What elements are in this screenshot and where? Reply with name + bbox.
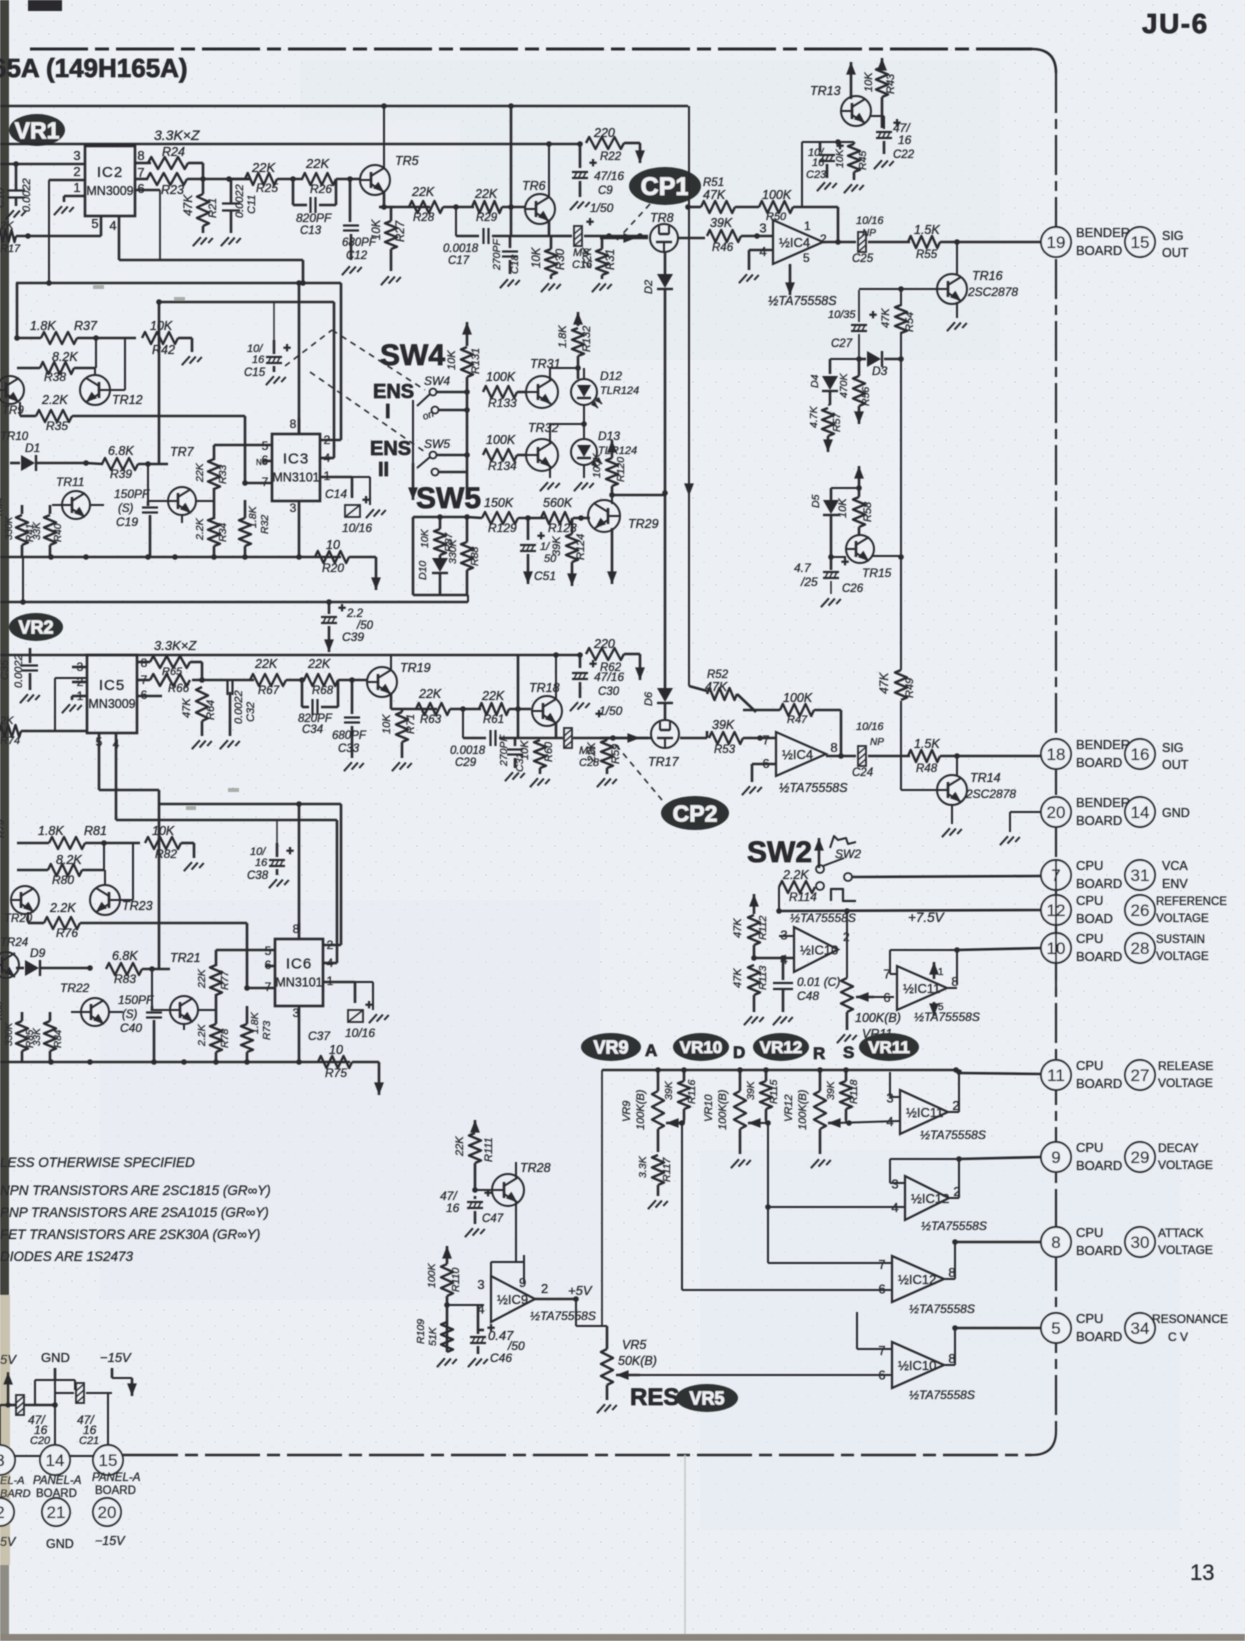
svg-text:½IC12: ½IC12: [898, 1272, 936, 1287]
wire TR22: [71, 1011, 81, 1013]
svg-text:TLR124: TLR124: [598, 445, 637, 457]
svg-text:18: 18: [1047, 745, 1066, 764]
svg-text:D1: D1: [25, 441, 40, 455]
svg-text:R86: R86: [0, 1001, 5, 1020]
svg-text:FET TRANSISTORS ARE 2SK30A (GR: FET TRANSISTORS ARE 2SK30A (GR∞Y): [0, 1227, 260, 1242]
wire rail y1062: [0, 1061, 350, 1064]
bottom scan edge strip: [0, 1634, 1245, 1641]
svg-text:VR5: VR5: [622, 1338, 646, 1352]
svg-text:16: 16: [446, 1201, 460, 1215]
svg-text:7: 7: [878, 1343, 885, 1358]
svg-text:19: 19: [1047, 233, 1066, 252]
IC11a loop wire: [890, 973, 897, 975]
svg-text:BENDER: BENDER: [1076, 225, 1130, 240]
svg-text:VR2: VR2: [18, 617, 53, 637]
wire TR21 base: [151, 969, 153, 1010]
svg-text:VR9: VR9: [593, 1037, 628, 1057]
wire R129-R123: [518, 517, 545, 520]
svg-text:28: 28: [1131, 939, 1150, 958]
resistor R37 1.8K: [41, 332, 77, 344]
svg-text:22K: 22K: [411, 185, 435, 199]
svg-text:TR13: TR13: [810, 84, 841, 98]
svg-text:39K: 39K: [745, 1080, 757, 1100]
resistor R35 2.2K: [36, 410, 72, 422]
wire TR8 row: [600, 237, 648, 240]
svg-text:C27: C27: [831, 338, 853, 350]
TR16 collector: [956, 242, 958, 274]
svg-text:R29: R29: [476, 212, 498, 224]
resistor R116 39K: [678, 1081, 690, 1109]
svg-text:½IC12: ½IC12: [911, 1191, 949, 1206]
svg-text:150PF: 150PF: [114, 487, 150, 501]
svg-text:MN3009: MN3009: [86, 184, 133, 198]
svg-text:PANEL-A: PANEL-A: [92, 1472, 141, 1484]
capacitor C21: [76, 1383, 84, 1403]
svg-text:R37: R37: [74, 319, 98, 333]
wire C24-R48: [868, 755, 910, 758]
wire R63-R61: [450, 708, 481, 711]
svg-text:R67: R67: [258, 685, 280, 697]
R42 to ground: [178, 337, 192, 340]
wire R24 to node: [188, 162, 203, 165]
TR28 emitter down: [515, 1202, 517, 1262]
svg-text:6: 6: [137, 181, 144, 196]
IC10b in wires: [857, 1348, 892, 1350]
svg-text:(S): (S): [118, 503, 134, 515]
vertical x602: [601, 1070, 603, 1326]
svg-text:VOLTAGE: VOLTAGE: [1158, 1243, 1213, 1257]
svg-text:R47: R47: [787, 714, 808, 726]
wire rail y302: [159, 301, 334, 304]
resistor R45 10K: [848, 144, 860, 172]
ground C9: [570, 201, 590, 210]
IC11b in3 wire: [890, 1096, 900, 1098]
capacitor C27: [858, 290, 860, 322]
resistor R46 39K: [707, 230, 741, 242]
pin circle 14b: [1125, 797, 1155, 827]
svg-text:820PF: 820PF: [296, 211, 332, 225]
print smudge 3: [228, 788, 239, 792]
pulse glyph: [831, 889, 856, 901]
svg-text:CPU: CPU: [1076, 1058, 1103, 1073]
ground TR32: [549, 467, 551, 478]
resistor R66: [150, 674, 190, 686]
ground C23: [817, 182, 837, 191]
svg-text:47K: 47K: [880, 308, 892, 328]
pin circle 20: [1041, 797, 1071, 827]
TR5 collector wire: [383, 106, 385, 168]
ground R59: [597, 778, 617, 787]
TR6 emitter: [548, 221, 551, 236]
svg-text:47K: 47K: [877, 672, 891, 694]
svg-text:TR11: TR11: [56, 475, 84, 489]
svg-text:R44: R44: [0, 497, 5, 516]
ground R27: [381, 276, 401, 285]
svg-text:+5V: +5V: [568, 1283, 593, 1298]
svg-text:0.0022: 0.0022: [234, 184, 246, 218]
capacitor C46: [470, 1336, 486, 1338]
svg-text:C34: C34: [302, 724, 323, 736]
resistor R115 39K: [760, 1081, 772, 1109]
svg-text:VR10: VR10: [703, 1094, 715, 1122]
dashed line C15-SW5: [310, 372, 425, 452]
svg-text:16: 16: [1131, 745, 1150, 764]
ground R30: [541, 283, 561, 292]
LED D13: [571, 439, 597, 465]
svg-text:TR8: TR8: [650, 211, 674, 225]
svg-text:SIG: SIG: [1162, 229, 1184, 243]
svg-text:100K: 100K: [783, 691, 813, 705]
svg-text:15: 15: [99, 1451, 118, 1470]
capacitor C16 MS: [574, 226, 582, 246]
svg-text:R17: R17: [0, 243, 21, 255]
wire TR31 col: [549, 368, 551, 380]
pin circle 27: [1125, 1060, 1155, 1090]
pin circle 10: [1041, 933, 1071, 963]
wire SW5: [436, 454, 467, 457]
svg-text:R25: R25: [256, 181, 278, 195]
svg-text:4.7: 4.7: [794, 561, 812, 575]
svg-text:C47: C47: [482, 1213, 504, 1225]
svg-text:20: 20: [1047, 803, 1066, 822]
svg-text:R133: R133: [488, 396, 517, 410]
vertical x17: [16, 283, 19, 338]
op-amp IC11b: [900, 1090, 948, 1134]
svg-text:R55: R55: [916, 249, 938, 261]
svg-text:C37: C37: [308, 1029, 331, 1043]
svg-text:ENS: ENS: [373, 381, 414, 403]
IC2 pin1 ground: [54, 206, 74, 215]
capacitor C20: [16, 1395, 24, 1415]
wire R110 node: [447, 1304, 484, 1306]
wire R83-TR21: [142, 968, 170, 971]
svg-text:R63: R63: [420, 714, 442, 726]
svg-text:SW4: SW4: [380, 339, 445, 372]
capacitor C33 680PF: [351, 680, 354, 714]
ground C38: [269, 879, 289, 888]
op-amp IC9: [491, 1276, 535, 1322]
badge VR5: [676, 1384, 738, 1412]
svg-text:47K: 47K: [703, 188, 726, 202]
capacitor C47: [467, 1201, 483, 1203]
svg-text:BOARD: BOARD: [1076, 1243, 1122, 1258]
resistor R17 stub: [0, 230, 16, 242]
svg-text:9: 9: [1051, 1148, 1060, 1167]
svg-text:VOLTAGE: VOLTAGE: [1156, 913, 1209, 925]
ground VR10: [731, 1159, 751, 1168]
pin circle 15b: [1125, 227, 1155, 257]
svg-text:47/16: 47/16: [594, 169, 624, 183]
svg-text:½TA75558S: ½TA75558S: [921, 1219, 987, 1233]
ground C10: [6, 210, 26, 219]
resistor R134 100K: [483, 449, 517, 461]
svg-text:R24: R24: [162, 145, 185, 159]
svg-text:R28: R28: [413, 212, 435, 224]
TR29 emitter down: [611, 528, 614, 584]
svg-text:R40: R40: [53, 523, 64, 542]
svg-text:8: 8: [137, 148, 144, 163]
pin circle 31: [1125, 860, 1155, 890]
svg-text:100K(B): 100K(B): [797, 1089, 809, 1130]
svg-text:R42: R42: [152, 343, 175, 357]
resistor R62 220: [586, 648, 624, 660]
svg-text:8.2K: 8.2K: [56, 853, 82, 867]
svg-text:0.0022: 0.0022: [21, 178, 33, 212]
svg-text:C13: C13: [300, 225, 322, 237]
IC12b out wire: [944, 1278, 955, 1280]
svg-text:1/50: 1/50: [590, 201, 614, 215]
capacitor C40 150PF: [151, 1006, 154, 1011]
badge VR2: [9, 613, 63, 641]
svg-text:CP2: CP2: [673, 800, 718, 826]
resistor R41 330K: [16, 515, 28, 545]
svg-text:C21: C21: [79, 1435, 99, 1447]
transistor TR7: [168, 487, 196, 515]
svg-text:470K: 470K: [838, 372, 850, 398]
svg-text:47/16: 47/16: [594, 670, 624, 684]
svg-text:22K: 22K: [307, 657, 331, 671]
svg-text:150PF: 150PF: [118, 993, 154, 1007]
svg-text:10/16: 10/16: [856, 721, 884, 733]
R75 arrow: [352, 1061, 379, 1064]
svg-text:C V: C V: [1168, 1330, 1188, 1344]
wire node: [229, 178, 251, 181]
wire D12-D13: [583, 405, 585, 439]
svg-text:C19: C19: [116, 515, 138, 529]
wire R46 to opamp: [741, 235, 773, 238]
wire TR12: [94, 368, 96, 375]
svg-text:R30: R30: [555, 248, 567, 270]
wire R26 to TR5: [336, 178, 360, 181]
svg-text:SW2: SW2: [747, 836, 812, 869]
svg-text:D2: D2: [643, 280, 655, 294]
capacitor C18 270PF: [509, 236, 512, 248]
svg-text:3: 3: [290, 501, 297, 515]
capacitor C34 820PF: [301, 680, 304, 707]
svg-text:22K: 22K: [418, 687, 442, 701]
svg-text:D: D: [733, 1043, 745, 1062]
resistor R117 3.3K: [652, 1155, 664, 1185]
svg-text:GND: GND: [41, 1350, 70, 1365]
wire left to IC5: [21, 730, 87, 733]
svg-text:220: 220: [593, 126, 615, 140]
TR16 base wire: [859, 288, 937, 290]
vertical bus x901: [900, 289, 902, 306]
svg-text:20: 20: [98, 1503, 117, 1522]
svg-text:R48: R48: [916, 763, 938, 775]
svg-text:16: 16: [255, 857, 268, 869]
capacitor C24: [858, 746, 866, 766]
svg-text:BOARD: BOARD: [1076, 1329, 1122, 1344]
vertical x341 to IC3 pin2: [340, 283, 343, 440]
IC11b out wire: [948, 1111, 959, 1113]
wire top rail y106: [0, 105, 688, 108]
TR29 collector up: [611, 495, 613, 504]
svg-text:1: 1: [804, 219, 811, 233]
wire R35 long: [19, 402, 21, 416]
svg-text:10K: 10K: [446, 350, 458, 370]
svg-text:MN3009: MN3009: [88, 697, 135, 711]
svg-text:R116: R116: [686, 1080, 698, 1104]
svg-text:C33: C33: [338, 743, 360, 755]
svg-text:+7.5V: +7.5V: [908, 910, 946, 925]
wire SW4 left drop: [412, 400, 414, 463]
capacitor C51: [527, 518, 530, 540]
svg-text:R109: R109: [415, 1319, 427, 1344]
ground C33: [344, 762, 364, 771]
svg-text:680PF: 680PF: [332, 730, 367, 742]
svg-text:R22: R22: [600, 151, 622, 163]
resistor R53 39K: [709, 732, 743, 744]
resistor R60 10K: [534, 740, 546, 768]
ground VR11: [837, 1034, 857, 1043]
svg-text:47K: 47K: [732, 918, 744, 938]
svg-text:R64: R64: [205, 700, 217, 720]
pot VR10: [734, 1091, 746, 1129]
IC5 box: [87, 655, 137, 733]
svg-text:5: 5: [803, 251, 810, 265]
wire IC9 out: [535, 1298, 576, 1301]
svg-text:10K: 10K: [519, 740, 531, 760]
diode D4: [829, 359, 832, 374]
wire TR11: [52, 504, 62, 506]
op IC2 box: [85, 146, 135, 216]
svg-text:NP: NP: [870, 737, 884, 748]
svg-text:R43: R43: [885, 73, 897, 94]
svg-text:RESONANCE: RESONANCE: [1152, 1312, 1228, 1326]
svg-text:+: +: [286, 843, 294, 858]
svg-text:VR10: VR10: [680, 1038, 723, 1057]
TR5 emitter wire: [383, 192, 386, 207]
ground C31: [505, 772, 525, 781]
svg-text:TR16: TR16: [972, 269, 1003, 283]
resistor R56 470K: [853, 376, 865, 406]
IC12a in wires: [890, 1182, 905, 1184]
resistor R67 22K: [250, 674, 286, 686]
resistor R77 22K: [210, 965, 222, 995]
svg-text:R53: R53: [714, 744, 736, 756]
resistor R132 1.8K: [572, 328, 584, 356]
svg-text:CPU: CPU: [1076, 1140, 1103, 1155]
svg-text:RES: RES: [630, 1384, 679, 1411]
wire R76 long: [27, 912, 29, 923]
svg-text:VR12: VR12: [783, 1094, 795, 1122]
pin circle 5: [1041, 1313, 1071, 1343]
ground C35: [20, 694, 40, 703]
TR14 emitter gnd: [951, 804, 953, 824]
svg-text:10K: 10K: [381, 714, 393, 734]
wire y495: [612, 494, 665, 497]
svg-text:26: 26: [1131, 901, 1150, 920]
svg-text:22K: 22K: [254, 657, 278, 671]
svg-text:CPU: CPU: [1076, 1225, 1103, 1240]
op-amp IC12b: [892, 1256, 944, 1302]
svg-text:TLR124: TLR124: [600, 385, 639, 397]
print smudge 2: [174, 297, 185, 301]
wire TR15 collector: [872, 555, 901, 557]
svg-text:8: 8: [1051, 1233, 1060, 1252]
junctions y1070: [655, 1067, 661, 1073]
svg-text:39K: 39K: [710, 216, 733, 230]
svg-text:R120: R120: [615, 457, 627, 482]
pin circle 11: [1041, 1060, 1071, 1090]
border bottom-right corner: [1032, 1431, 1056, 1455]
wire TR13 col: [838, 141, 854, 143]
svg-text:16: 16: [812, 157, 825, 169]
svg-text:1: 1: [938, 967, 944, 978]
svg-text:C24: C24: [852, 767, 873, 779]
svg-text:330K: 330K: [4, 1021, 15, 1046]
border top-right corner: [1032, 49, 1056, 73]
resistor R74 stub: [0, 725, 21, 737]
capacitor C35: [22, 664, 38, 666]
pin circle 8: [1041, 1227, 1071, 1257]
ground R21: [202, 226, 205, 233]
svg-text:10K: 10K: [863, 72, 875, 92]
svg-text:39K: 39K: [663, 1080, 675, 1100]
resistor R114 2.2K: [779, 881, 815, 893]
TR14 base: [901, 789, 937, 791]
svg-text:C20: C20: [30, 1435, 51, 1447]
wire R29 to TR6: [502, 206, 526, 209]
fet TR17: [651, 720, 679, 748]
svg-text:R31: R31: [605, 249, 617, 270]
svg-text:47K: 47K: [181, 698, 193, 718]
wire IC9 in: [446, 1305, 449, 1321]
wire rail y655: [0, 654, 580, 657]
svg-text:7: 7: [762, 732, 769, 747]
pin circle 30: [1125, 1227, 1155, 1257]
transistor TR22: [81, 998, 109, 1026]
resistor R26 22K: [302, 173, 336, 185]
svg-text:1: 1: [73, 180, 80, 195]
svg-text:EL-A: EL-A: [0, 1475, 24, 1487]
wire R28-R29: [443, 206, 474, 209]
svg-text:TR29: TR29: [628, 517, 659, 531]
ground C15: [266, 376, 286, 385]
svg-text:47K: 47K: [732, 968, 744, 988]
svg-text:C26: C26: [842, 583, 864, 595]
svg-text:R110: R110: [450, 1268, 462, 1292]
bus x665 lower: [664, 493, 667, 688]
dashed line C15-SW4: [285, 330, 332, 366]
svg-text:DIODES ARE 1S2473: DIODES ARE 1S2473: [0, 1249, 134, 1264]
svg-text:2: 2: [73, 164, 80, 179]
capacitor C31 270PF: [514, 738, 517, 746]
svg-text:BOARD: BOARD: [1076, 876, 1122, 891]
wire rail y144: [0, 143, 580, 146]
svg-text:100K(B): 100K(B): [855, 1011, 901, 1025]
svg-text:½TA75558S: ½TA75558S: [920, 1128, 986, 1142]
svg-text:D13: D13: [598, 429, 620, 443]
svg-text:R54: R54: [904, 312, 916, 332]
wire TR7 base: [147, 464, 149, 501]
svg-text:VOLTAGE: VOLTAGE: [1156, 951, 1209, 963]
svg-text:C30: C30: [598, 686, 620, 698]
TR18 collector: [555, 655, 557, 699]
svg-text:½IC10: ½IC10: [800, 943, 838, 958]
svg-text:II: II: [378, 459, 389, 481]
svg-text:R75: R75: [325, 1066, 347, 1080]
svg-text:2.2K: 2.2K: [782, 868, 809, 882]
IC4b ground: [752, 763, 776, 766]
svg-text:9: 9: [519, 1275, 526, 1290]
wire IC4a out: [823, 241, 856, 244]
svg-text:2.2K: 2.2K: [41, 393, 68, 407]
transistor TR19: [367, 667, 397, 697]
svg-text:27: 27: [1131, 1066, 1150, 1085]
svg-text:3.3K: 3.3K: [637, 1155, 649, 1178]
